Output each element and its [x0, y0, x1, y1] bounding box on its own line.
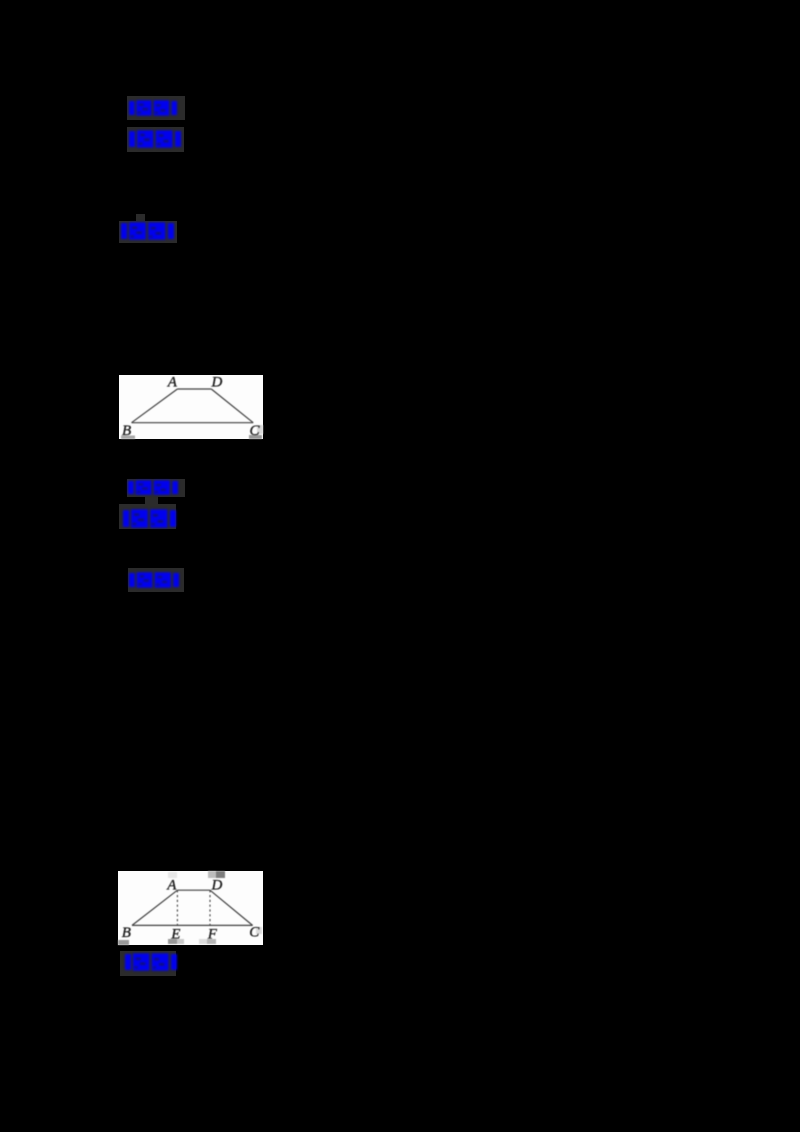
gray patch right of C — [256, 927, 262, 934]
svg-text:D: D — [211, 877, 223, 893]
label 2 gray box — [127, 127, 184, 152]
svg-text:C: C — [249, 925, 260, 941]
side DC — [210, 890, 253, 925]
label 7 blue text 【点评】 — [125, 953, 177, 971]
label 5 gray box — [119, 504, 176, 529]
gray handle bottom-right — [249, 435, 262, 439]
svg-text:A: A — [166, 877, 177, 893]
gray handle bottom-left — [121, 436, 135, 440]
side BC — [132, 422, 254, 424]
gray patch above A — [168, 872, 177, 878]
trapezoid ABCD figure 2 — [132, 890, 253, 925]
dashed height DF — [209, 890, 211, 925]
label 5 blue text 【分析】 — [123, 509, 176, 528]
label 4 gray tab below — [145, 497, 158, 505]
figure 2 white box — [118, 871, 263, 945]
svg-text:F: F — [207, 926, 218, 942]
label 6 gray box — [128, 568, 184, 592]
side AD — [177, 889, 210, 891]
label 3 blue text 【点评】 — [121, 222, 174, 240]
side AB — [132, 389, 178, 423]
label 6 blue text 【解答】 — [129, 572, 179, 588]
svg-text:B: B — [122, 925, 131, 941]
gray handle below F light — [199, 939, 207, 944]
trapezoid ABCD figure 1 — [132, 389, 254, 423]
label 3 gray tab above — [136, 214, 145, 222]
side AD — [177, 388, 211, 390]
figure 1 white box — [119, 375, 263, 439]
label 7 gray box — [120, 951, 176, 976]
svg-text:C: C — [250, 423, 261, 439]
gray patch above D dark — [216, 871, 225, 878]
svg-text:D: D — [211, 375, 223, 391]
svg-text:B: B — [122, 423, 131, 439]
dashed height AE — [176, 890, 178, 925]
side BC — [132, 924, 253, 926]
label 4 gray box — [127, 479, 185, 497]
label 1 gray box — [127, 96, 185, 120]
gray patch near C — [257, 425, 263, 434]
label 3 gray box — [119, 221, 177, 243]
side DC — [211, 389, 253, 423]
gray handle bottom-left — [118, 940, 129, 945]
label 1 blue text 【分析】 — [129, 100, 177, 116]
gray patch above D light — [208, 871, 216, 878]
side AB — [132, 890, 177, 925]
label 2 blue text 【解答】 — [129, 130, 181, 148]
gray handle below E dark — [168, 939, 177, 944]
gray handle below F dark — [207, 939, 216, 944]
label 4 blue text 【考点】 — [128, 480, 178, 495]
svg-text:A: A — [167, 375, 178, 391]
svg-text:E: E — [170, 926, 180, 942]
gray handle below E light — [177, 939, 184, 944]
